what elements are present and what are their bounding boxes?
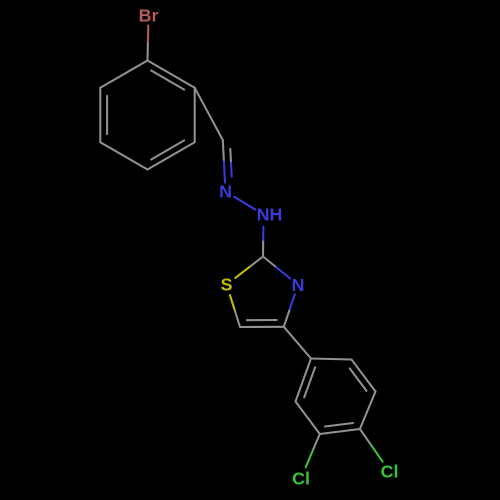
ring1 inner double C1=C2 bbox=[151, 71, 184, 90]
bond N-NH bbox=[234, 197, 255, 210]
thiazole inner double C4=C5 bbox=[247, 319, 277, 321]
svg-text:Br: Br bbox=[139, 6, 159, 26]
ring2 edge C1'-C2' bbox=[296, 359, 312, 402]
ring1 inner double C3=C4 bbox=[151, 140, 184, 159]
ring1 inner double C5=C6 bbox=[106, 96, 108, 134]
thiazole bond C4-C5 bbox=[240, 326, 284, 328]
ring1 edge C5-C6 bbox=[99, 88, 101, 142]
thiazole bond C2-N3 bbox=[263, 257, 277, 268]
svg-text:N: N bbox=[219, 182, 232, 202]
ring2 edge C3'-C4' bbox=[320, 429, 360, 434]
svg-text:S: S bbox=[221, 275, 233, 295]
thiazole bond S-C5 bbox=[230, 295, 235, 311]
ring1 edge C3-C4 bbox=[148, 142, 195, 169]
bond CH=N main bbox=[223, 140, 224, 161]
svg-text:Cl: Cl bbox=[381, 462, 399, 482]
ring2 edge C4'-C5' bbox=[360, 392, 376, 430]
svg-text:N: N bbox=[292, 275, 305, 295]
ring1 edge C4-C5 bbox=[100, 142, 147, 169]
bond CH=N second line blue half bbox=[230, 163, 233, 177]
bond ring1-CH bbox=[195, 88, 223, 140]
ring2 edge C2'-C3' bbox=[296, 402, 320, 435]
bond C3'-Cl bbox=[313, 434, 320, 451]
bond C4-ring2 bbox=[284, 327, 311, 359]
ring2 edge C6'-C1' bbox=[311, 359, 352, 360]
ring1 edge C1-C2 bbox=[148, 61, 195, 88]
bond Br-C1 bbox=[147, 26, 149, 44]
thiazole bond C2-S bbox=[249, 257, 263, 268]
ring2 inner double C3'=C4' bbox=[325, 423, 353, 427]
ring2 edge C5'-C6' bbox=[352, 360, 376, 392]
bond NH-C2 bbox=[262, 227, 264, 242]
ring2 inner double C1'=C2' bbox=[304, 367, 315, 397]
ring1 edge C2-C3 bbox=[194, 88, 196, 142]
bond CH=N second line gray half bbox=[229, 149, 232, 163]
thiazole bond N3-C4 bbox=[289, 294, 295, 310]
bond C4'-Cl bbox=[360, 429, 371, 445]
svg-text:NH: NH bbox=[257, 205, 283, 225]
ring1 edge C6-C1 bbox=[100, 61, 147, 88]
svg-text:Cl: Cl bbox=[292, 469, 310, 489]
ring2 inner double C5'=C6' bbox=[350, 368, 367, 390]
